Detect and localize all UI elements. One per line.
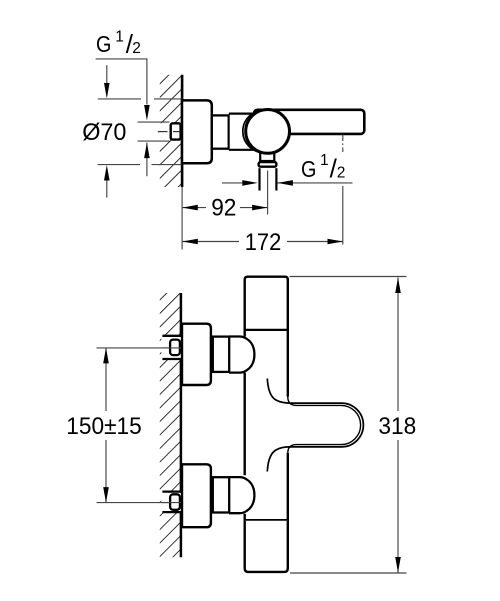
top S-union bulge [229, 337, 254, 373]
svg-text:Ø70: Ø70 [82, 119, 126, 146]
body cylinder (narrow section) [212, 115, 229, 148]
svg-text:172: 172 [245, 229, 282, 256]
top cap separation line [244, 329, 290, 332]
white pipe passage top connection [161, 337, 181, 359]
wall flange (escutcheon, side view) [182, 100, 212, 163]
top pipe edge lines through wall [162, 335, 181, 337]
rear body circle (crescent behind main circle) [243, 110, 285, 152]
arrow B down to pipe top [144, 105, 150, 121]
outlet neck under circle [260, 149, 274, 161]
handle outer contour [267, 379, 363, 472]
svg-text:318: 318 [378, 413, 416, 440]
inlet centerline dashes [158, 131, 168, 133]
body mid left edge segments [243, 331, 245, 337]
body wider section [230, 114, 259, 150]
pipe extension line top [138, 121, 170, 123]
leader under G1/2 top-left [96, 59, 147, 105]
dimension 150±15 [105, 348, 107, 411]
bottom wall nut [170, 494, 180, 510]
white pipe passage through wall [158, 123, 171, 140]
318 bottom extension line [290, 572, 407, 574]
body bottom cap [245, 521, 288, 572]
svg-text:2: 2 [337, 165, 346, 182]
bottom connection cylinder [213, 477, 229, 512]
svg-text:92: 92 [211, 195, 236, 222]
150 ext line over nut (bottom) [162, 502, 181, 504]
top wall nut [170, 340, 180, 356]
dimension 318 [397, 278, 399, 412]
arrow C up to pipe bottom [146, 143, 148, 177]
leader line under outlet G1/2 [277, 182, 352, 184]
svg-text:2: 2 [132, 40, 141, 57]
flange top extension line [98, 98, 141, 100]
outlet pipe centerline [267, 171, 269, 215]
bottom escutcheon [182, 464, 211, 527]
top connection cylinder [213, 337, 229, 372]
body mid right edge segments [287, 331, 289, 397]
arrow D up to flange bottom ext [106, 180, 108, 198]
body mid section fill [245, 331, 288, 520]
inlet union nut behind wall [171, 123, 181, 139]
dimension 172 [183, 241, 240, 243]
bottom cap separation line [244, 519, 290, 522]
main valve body circle [246, 109, 290, 153]
bottom pipe edge lines through wall [162, 490, 181, 492]
svg-text:150±15: 150±15 [66, 413, 142, 440]
top escutcheon [182, 324, 211, 385]
svg-text:G: G [301, 156, 316, 182]
arrow to outlet pipe left [242, 180, 257, 186]
white pipe passage bottom connection [161, 493, 181, 512]
outlet pipe walls [258, 168, 260, 190]
svg-text:1: 1 [115, 29, 124, 46]
body main outline: top cap [245, 277, 288, 331]
150 ext line over nut (top) [162, 347, 181, 349]
svg-text:1: 1 [320, 152, 329, 169]
arrow to outlet pipe right [277, 180, 293, 186]
150±15 bottom extension line [97, 502, 182, 504]
wall extension line below hatch [181, 187, 183, 250]
dimension 92 [183, 207, 207, 209]
wall line (bottom view) [180, 293, 183, 557]
outlet collar [259, 162, 277, 167]
wall hatching (bottom view) [160, 293, 181, 557]
wall line (top view) [181, 75, 184, 187]
spout lever bar [254, 110, 364, 134]
arrow A down to flange top ext [106, 65, 108, 84]
318 top extension line [290, 276, 407, 278]
spout end extension (chain line at x=342.8) [342, 135, 344, 152]
wall hatching (top view) [160, 75, 182, 187]
flange bottom extension line [98, 164, 140, 166]
handle inner contour [288, 396, 361, 455]
bottom S-union bulge [229, 477, 254, 513]
150±15 top extension line [97, 347, 182, 349]
svg-text:G: G [96, 31, 111, 57]
pipe extension line bottom [138, 140, 170, 142]
